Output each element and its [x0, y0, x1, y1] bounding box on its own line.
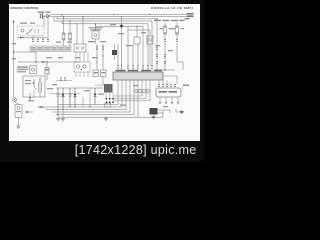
- label smudge 10: [155, 45, 160, 46]
- wire coil out: [34, 90, 40, 97]
- wire long L2: [46, 80, 126, 110]
- wire x152 to ECU: [151, 69, 153, 72]
- distributor box: [74, 62, 90, 72]
- wire y80 link: [56, 80, 72, 82]
- label smudge 21: [120, 105, 126, 106]
- wire x121.5 to ECU: [121, 69, 123, 72]
- node junction x36 y62: [35, 61, 36, 62]
- wire drop x70: [69, 21, 71, 33]
- connector marks x157: [156, 47, 158, 50]
- connector code box 2: [37, 46, 43, 52]
- label smudge 3: [20, 23, 27, 24]
- sensor box x102: [101, 70, 107, 77]
- wire y30 link: [128, 26, 150, 30]
- wire bus B1: [52, 13, 186, 15]
- wire band to right: [163, 76, 177, 84]
- label bracket right: [183, 85, 189, 86]
- connector pair x128 y66: [127, 66, 129, 69]
- wire drop x36: [35, 52, 37, 62]
- resistor fuel pump box: [15, 105, 22, 118]
- label igniter: [25, 80, 31, 81]
- wire branch x177 y62: [177, 62, 183, 70]
- label smudge 5: [88, 41, 95, 42]
- ECU connector band: [113, 72, 163, 80]
- node dot x103 y56: [102, 55, 103, 56]
- wire nested A2: [114, 80, 146, 99]
- ignition coil primary: [39, 79, 41, 81]
- wire drop x133: [132, 44, 134, 66]
- connector pair x33: [32, 39, 34, 42]
- wire x177 link: [176, 34, 178, 62]
- wire arrow L1: [38, 106, 43, 108]
- capacitor C2: [69, 88, 72, 107]
- label smudge 8: [126, 45, 132, 46]
- label smudge 22: [133, 85, 138, 86]
- wire sensor bus y93.5: [50, 93, 80, 95]
- wire arrow left mid: [25, 111, 29, 113]
- connector pair x165 y40: [164, 39, 166, 42]
- wire relay feed 1: [43, 17, 45, 26]
- label smudge 26: [12, 58, 16, 59]
- wire ign feed 2: [82, 17, 84, 44]
- wire x157 drop: [156, 21, 158, 70]
- wire x148 to ECU: [147, 69, 149, 72]
- relay C/OPN box: [30, 66, 37, 74]
- label AM2: [46, 12, 51, 13]
- battery: [40, 13, 42, 19]
- connector code box 5: [58, 46, 64, 52]
- connector pair x143 y66: [142, 66, 144, 69]
- connector pair x121.5 y66: [121, 66, 123, 69]
- wire bus B4: [62, 21, 148, 44]
- junction box blobs: [105, 104, 111, 108]
- node bus end label 1: [187, 13, 194, 15]
- label smudge 2: [67, 42, 72, 43]
- label smudge 15: [92, 57, 98, 58]
- component box x137: [134, 37, 140, 44]
- connector code box 3: [44, 46, 50, 52]
- wire relay feed 2: [47, 17, 49, 24]
- connector pair x138 y66: [137, 66, 139, 69]
- connector pair x43: [42, 39, 44, 42]
- connector pair x177 y40: [176, 39, 178, 42]
- ECU oval box: [156, 88, 181, 97]
- connector ticks oval: [158, 84, 160, 87]
- wire arrow y62: [42, 61, 46, 63]
- wire x143 to ECU: [142, 69, 144, 72]
- node dot x97 y62: [96, 61, 97, 62]
- label fuse tail: [172, 28, 176, 29]
- wire igniter arrow: [29, 97, 31, 101]
- wire sensor bus y88: [56, 87, 103, 89]
- junction tick B1-B2: [61, 14, 63, 16]
- wire oval feeds: [159, 80, 167, 84]
- wire battery to bus: [43, 14, 52, 16]
- wire long L4: [56, 80, 134, 115]
- wire x70 down: [69, 40, 71, 46]
- diode D1: [62, 94, 65, 97]
- wire oval pins down: [160, 97, 178, 102]
- distributor pickup coils: [76, 65, 79, 68]
- connector pair x65 y78: [64, 78, 66, 81]
- wire y110 right: [158, 110, 171, 113]
- label smudge 13: [46, 57, 52, 58]
- connector pair x97: [96, 47, 98, 50]
- wire branch y52: [14, 51, 37, 53]
- label smudge 4: [30, 23, 35, 24]
- node diamond junction x121: [120, 24, 124, 28]
- wire long L0: [58, 80, 118, 105]
- fusible link: [46, 15, 49, 18]
- relay EFI main box: [17, 26, 44, 36]
- wire fuse feed x177: [176, 23, 178, 27]
- label smudge 16: [75, 57, 80, 58]
- connector pair x103: [102, 47, 104, 50]
- wire bracket arrow: [180, 111, 184, 115]
- wire check box down: [95, 39, 97, 44]
- capacitor C1: [57, 88, 60, 115]
- connector pair x61 y78: [60, 78, 62, 81]
- wire x90 drop: [89, 88, 91, 107]
- label C/OPN relay: [17, 67, 28, 68]
- connector code box 4: [51, 46, 57, 52]
- wire long L3: [52, 80, 130, 112]
- wire y113 right: [158, 112, 164, 114]
- fuse GAUGE: [62, 33, 65, 40]
- ground G1: [57, 115, 59, 118]
- label smudge 1: [56, 42, 61, 43]
- wire x133 to ECU: [132, 69, 134, 72]
- label smudge 9: [141, 32, 146, 33]
- relay contact: [26, 29, 33, 34]
- resistor component x47: [45, 68, 49, 75]
- wire corner bracket: [176, 109, 184, 113]
- label smudge 7: [118, 33, 124, 34]
- label smudge 6: [100, 41, 106, 42]
- wire ign feed: [76, 24, 78, 44]
- svg-text:COROLLA 4A-FE SMFI: COROLLA 4A-FE SMFI: [151, 6, 193, 10]
- switch contact circles: [76, 47, 78, 49]
- wire nested A1: [114, 80, 142, 96]
- wire fuse row arrow: [20, 37, 24, 39]
- wire pump drop: [18, 118, 20, 126]
- label stop tail lights: [154, 20, 161, 21]
- wire bus B5: [96, 24, 144, 44]
- node bus end label 2: [187, 15, 194, 17]
- wire drop x63.5: [63, 17, 65, 33]
- wire bus y62: [18, 61, 80, 63]
- wire long L5: [58, 80, 163, 117]
- node dot x165 y70: [164, 69, 165, 70]
- relay pin marks: [35, 29, 39, 33]
- wire drop x152: [151, 44, 153, 66]
- wire drop x143: [142, 44, 144, 66]
- component row small: [135, 90, 137, 93]
- connector code box 1: [30, 46, 36, 52]
- connector drop x43: [42, 38, 44, 40]
- wire x165 link: [164, 34, 166, 70]
- switch ignition box: [74, 44, 86, 52]
- connector drop x33: [32, 36, 34, 40]
- wire y70 right: [154, 69, 175, 71]
- ground G3: [105, 116, 107, 119]
- connector marks x165: [164, 54, 166, 57]
- label smudge 20: [84, 90, 89, 91]
- connector box LB: [104, 84, 113, 93]
- fuse TAIL: [176, 26, 179, 34]
- svg-text:ENGINE CONTROL: ENGINE CONTROL: [11, 6, 40, 10]
- ground G4: [153, 115, 155, 117]
- wire fuse feed x165: [164, 23, 166, 27]
- connector pair x118 y66: [117, 66, 119, 69]
- wire bus B2b: [57, 17, 157, 21]
- node junction left y52: [13, 51, 14, 52]
- ground G2: [62, 110, 64, 118]
- label smudge 17: [28, 100, 34, 101]
- fuel pump symbol: [13, 98, 17, 102]
- wire x47 down: [46, 62, 48, 80]
- wire oval pin arrows: [159, 102, 179, 105]
- label smudge 11: [168, 50, 173, 51]
- wire bus B3: [54, 17, 152, 44]
- connector pair x48: [47, 39, 49, 42]
- wire x138 to ECU: [137, 69, 139, 72]
- node dots group B: [57, 114, 58, 115]
- node junction x47 y62: [46, 61, 47, 62]
- wire drop x103: [102, 44, 104, 70]
- wire left drop arrowhead: [13, 21, 15, 23]
- wire bus B2: [52, 16, 186, 18]
- connector pair x133 y66: [132, 66, 134, 69]
- label check connector: [89, 27, 103, 28]
- connector pair x152 y66: [151, 66, 153, 69]
- wire x118 to ECU: [117, 69, 119, 72]
- wire x128 to ECU: [127, 69, 129, 72]
- wire fuse row bus: [17, 37, 48, 39]
- wire check conn feed: [95, 24, 97, 31]
- wire drop x148: [147, 44, 149, 66]
- wire x63.5 down: [63, 40, 65, 46]
- label smudge 25: [12, 43, 16, 44]
- component box x150: [147, 36, 153, 44]
- connector pair x38: [37, 39, 39, 42]
- igniter transistor: [32, 79, 37, 90]
- wire drop x118: [117, 44, 119, 66]
- wire drop x128: [127, 30, 129, 66]
- wire drop x121.5: [121, 28, 123, 66]
- wire left main drop: [13, 20, 15, 97]
- wire drop x97: [96, 44, 98, 70]
- fuse STOP: [164, 26, 167, 34]
- label smudge 14: [58, 57, 63, 58]
- wire pump to resistor: [15, 102, 19, 105]
- node bus end label 3: [185, 18, 190, 20]
- fuse IGN: [69, 33, 72, 40]
- ground fuel pump: [17, 126, 21, 128]
- connector pair x148 y66: [147, 66, 149, 69]
- diode D3: [94, 94, 97, 97]
- label smudge 19: [52, 84, 57, 85]
- diode D2: [74, 94, 77, 97]
- wire drop x138: [137, 44, 139, 66]
- relay coil: [21, 29, 24, 32]
- node dots on buses: [63, 16, 64, 17]
- label smudge 24: [98, 94, 104, 95]
- connector drop x38: [37, 38, 39, 40]
- wire y85 link: [95, 77, 104, 85]
- wire ign to dist: [76, 52, 88, 62]
- connector code box 6: [65, 46, 71, 52]
- sensor box x95: [93, 70, 99, 77]
- igniter box: [23, 76, 45, 97]
- wire dist pins: [76, 72, 88, 77]
- label FL MAIN: [38, 12, 44, 13]
- label smudge 23: [163, 106, 168, 107]
- wire nested A3: [114, 80, 150, 101]
- connector blobs bottom left: [105, 98, 107, 103]
- label fuse stop: [160, 28, 164, 29]
- component blob bottom right: [150, 108, 158, 115]
- wire x83 drop: [82, 97, 84, 107]
- label row above band: [116, 70, 126, 72]
- label smudge 18: [47, 88, 53, 89]
- wire long L1: [38, 80, 122, 107]
- connector check box: [92, 31, 99, 39]
- wire relay feed 3: [47, 24, 49, 40]
- relay blob x114: [112, 50, 117, 55]
- label smudge 12: [110, 24, 116, 25]
